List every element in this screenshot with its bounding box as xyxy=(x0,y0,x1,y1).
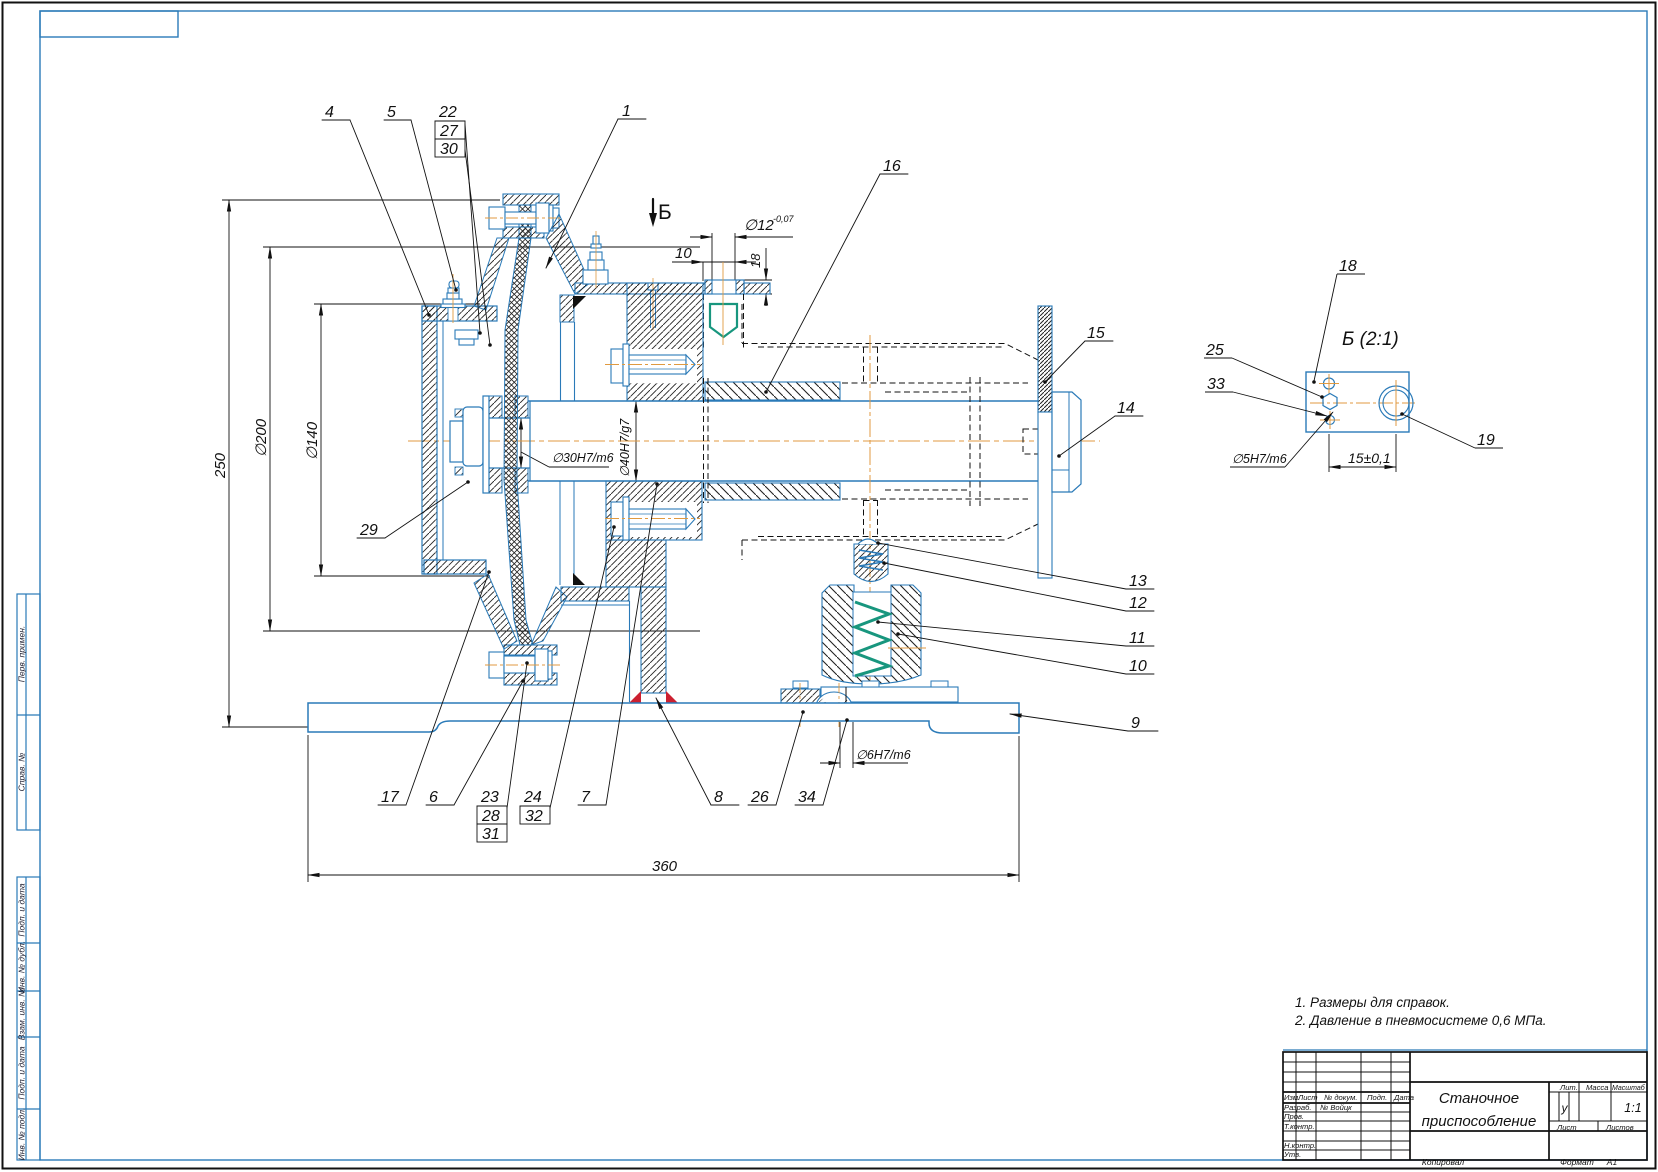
callouts 24/32 stack xyxy=(520,527,614,824)
svg-text:10: 10 xyxy=(1129,658,1147,675)
hub ring 29 hatched collars xyxy=(489,396,502,418)
svg-text:Масштаб: Масштаб xyxy=(1612,1084,1646,1092)
svg-text:приспособление: приспособление xyxy=(1422,1113,1537,1130)
svg-text:18: 18 xyxy=(1339,258,1357,275)
callout 17 xyxy=(378,572,489,805)
callout 13 xyxy=(878,543,1154,589)
svg-text:∅5H7/m6: ∅5H7/m6 xyxy=(1232,452,1287,466)
callout 18 xyxy=(1314,274,1365,381)
upper chamber top plate xyxy=(575,283,706,294)
hub upper block (hatched) xyxy=(627,283,703,401)
membrane disc 22/27/30 (cross-hatched band) xyxy=(504,205,533,645)
svg-text:28: 28 xyxy=(481,808,500,825)
shaft ф40 xyxy=(528,401,1038,481)
svg-text:Масса: Масса xyxy=(1586,1083,1608,1092)
svg-text:2. Давление в пневмосистеме 0,: 2. Давление в пневмосистеме 0,6 МПа. xyxy=(1294,1013,1547,1028)
svg-text:15: 15 xyxy=(1087,325,1105,342)
svg-text:11: 11 xyxy=(1129,630,1146,647)
main axis centerline xyxy=(408,440,1100,442)
bushing 16 upper xyxy=(705,382,840,400)
svg-text:10: 10 xyxy=(675,245,692,262)
pin 34 xyxy=(845,687,847,721)
weld triangle upper xyxy=(573,296,586,309)
svg-text:5: 5 xyxy=(387,104,396,121)
hex socket hole 25 xyxy=(1323,394,1337,410)
dimension ф12 -0.07 xyxy=(690,233,793,281)
technical notes xyxy=(1294,995,1547,1028)
column weld seams (red) xyxy=(629,691,641,703)
callout 26 xyxy=(748,712,803,805)
svg-text:13: 13 xyxy=(1129,573,1147,590)
callout 11 xyxy=(878,622,1154,646)
spherical washer dome xyxy=(816,692,852,721)
svg-text:Подп. и дата: Подп. и дата xyxy=(17,1046,27,1099)
svg-text:Копировал: Копировал xyxy=(1422,1157,1464,1167)
svg-text:22: 22 xyxy=(438,104,457,121)
left margin stamp lower: Подп. и дата / Инв № дубл / Взам. инв. № / Подп. и дата / Инв № подл xyxy=(17,877,40,1160)
svg-text:Инв. № дубл.: Инв. № дубл. xyxy=(17,941,27,993)
svg-text:360: 360 xyxy=(652,858,678,875)
svg-text:Подп.: Подп. xyxy=(1367,1093,1387,1102)
dimension 18 (port depth) xyxy=(744,248,772,306)
label ф5H7/m6 with leader xyxy=(1230,412,1333,467)
svg-text:Пров.: Пров. xyxy=(1284,1112,1304,1121)
svg-text:15±0,1: 15±0,1 xyxy=(1348,450,1391,466)
grease fitting 5 on cup xyxy=(441,281,465,321)
hidden passage below plug xyxy=(704,294,744,348)
svg-text:Б (2:1): Б (2:1) xyxy=(1342,329,1399,350)
clamp block 26 xyxy=(781,689,820,721)
valve body 10 xyxy=(822,585,921,684)
callout 25 xyxy=(1204,358,1322,397)
svg-text:7: 7 xyxy=(581,789,591,806)
grease fitting on cone top xyxy=(583,236,608,284)
svg-text:33: 33 xyxy=(1207,376,1225,393)
callout 8 xyxy=(656,698,739,805)
svg-text:Справ. №: Справ. № xyxy=(17,753,27,792)
svg-text:31: 31 xyxy=(482,826,500,843)
hub lower block (hatched) xyxy=(606,481,702,540)
hub lower bolt xyxy=(611,497,695,540)
valve piston 12 xyxy=(854,544,888,582)
svg-text:19: 19 xyxy=(1477,432,1495,449)
dimension ф200 xyxy=(263,247,700,631)
svg-text:№ докум.: № докум. xyxy=(1324,1093,1357,1102)
dimension ф30H7/m6 xyxy=(521,418,609,468)
dim 15±0,1 xyxy=(1329,434,1396,472)
svg-text:у: у xyxy=(1561,1101,1569,1115)
small spring 13 (blue) inside piston xyxy=(859,550,883,570)
hub lower bolt pocket xyxy=(628,502,697,537)
section arrow Б xyxy=(649,199,672,227)
callout 4 xyxy=(322,120,429,315)
svg-text:Разраб.: Разраб. xyxy=(1284,1103,1311,1112)
svg-text:∅40H7/g7: ∅40H7/g7 xyxy=(618,418,632,477)
svg-text:27: 27 xyxy=(439,123,459,140)
cup housing 4: bottom flange xyxy=(424,560,486,574)
svg-text:Лит.: Лит. xyxy=(1559,1083,1578,1092)
svg-text:Перв. примен.: Перв. примен. xyxy=(17,626,27,683)
screw in top plate xyxy=(648,283,658,290)
svg-text:∅140: ∅140 xyxy=(304,421,321,460)
support column 8 xyxy=(641,587,666,693)
bushing hidden continuation xyxy=(842,383,1028,499)
svg-text:Б: Б xyxy=(658,201,672,224)
svg-text:-0,07: -0,07 xyxy=(773,214,795,224)
cup housing 4: left wall xyxy=(422,306,437,574)
cone disc 1: upper-left band to cup xyxy=(474,238,509,310)
hub ring lip hatched slivers xyxy=(455,409,463,417)
svg-text:18: 18 xyxy=(748,253,763,268)
shaft neck ф30 xyxy=(489,401,530,481)
cone disc 1: lower-right band xyxy=(531,587,567,645)
dimension ф6H7/m6 xyxy=(820,722,908,768)
svg-text:∅30H7/m6: ∅30H7/m6 xyxy=(552,451,614,465)
callout 10 xyxy=(898,634,1154,674)
callout 5 xyxy=(384,120,456,290)
spring 11 (green) xyxy=(855,602,889,676)
svg-text:∅12: ∅12 xyxy=(744,217,774,234)
svg-text:Формат: Формат xyxy=(1560,1157,1594,1167)
port boss (ф12 hole) xyxy=(705,280,744,294)
dimension 360 xyxy=(308,735,1019,882)
base plate 9 xyxy=(308,703,1019,733)
valve vertical axis xyxy=(869,335,871,700)
svg-text:24: 24 xyxy=(523,789,542,806)
top-left stamp box xyxy=(40,11,178,37)
clamp nut 14 xyxy=(1052,392,1081,492)
callout 34 xyxy=(795,720,847,805)
end plate 15 xyxy=(1038,306,1052,412)
svg-text:4: 4 xyxy=(325,104,334,121)
svg-text:34: 34 xyxy=(798,789,816,806)
svg-text:16: 16 xyxy=(883,158,901,175)
callout 15 xyxy=(1045,341,1113,382)
svg-text:Лист: Лист xyxy=(1297,1093,1318,1102)
hub bore hidden edges xyxy=(704,378,709,503)
callout 19 xyxy=(1402,414,1503,448)
central bolt head xyxy=(450,396,489,493)
svg-text:№ Войцк: № Войцк xyxy=(1320,1103,1352,1112)
svg-text:12: 12 xyxy=(1129,595,1147,612)
dimension 250 xyxy=(222,200,500,727)
svg-text:Т.контр.: Т.контр. xyxy=(1284,1122,1315,1131)
svg-text:Взам. инв. №: Взам. инв. № xyxy=(17,988,27,1041)
callouts 22/27/30 stack xyxy=(435,121,490,345)
svg-text:Подп. и дата: Подп. и дата xyxy=(17,883,27,936)
pneumatic chamber hidden outline xyxy=(742,304,1038,560)
svg-text:23: 23 xyxy=(480,789,499,806)
callout 16 xyxy=(766,174,908,392)
svg-text:Листов: Листов xyxy=(1605,1123,1634,1132)
cup inner wall line xyxy=(442,321,444,560)
callout 29 xyxy=(357,482,468,538)
callout 12 xyxy=(884,563,1154,611)
svg-text:Дата: Дата xyxy=(1393,1093,1414,1102)
svg-text:Утв.: Утв. xyxy=(1283,1150,1301,1159)
dimension ф140 xyxy=(314,304,490,576)
callout 6 xyxy=(426,681,523,805)
detail centerline horizontal xyxy=(1310,402,1415,404)
cone disc 1: lower-left band xyxy=(474,574,517,649)
left margin stamp: Перв. примен. / Справ. № xyxy=(17,594,40,830)
svg-text:9: 9 xyxy=(1131,715,1140,732)
svg-text:Станочное: Станочное xyxy=(1439,1090,1519,1107)
svg-text:А1: А1 xyxy=(1606,1157,1618,1167)
cup housing 4: top flange xyxy=(422,306,497,321)
svg-text:250: 250 xyxy=(212,452,229,479)
top joint bolt xyxy=(489,203,559,233)
callout 9 xyxy=(1010,714,1158,731)
dimension 10 xyxy=(672,262,756,281)
plug (green) below port xyxy=(710,304,737,337)
title block main table (black) xyxy=(1283,1052,1647,1160)
pin hole 33 (ф5H7) xyxy=(1326,416,1335,425)
valve flange xyxy=(821,687,958,702)
hole 18 (small top hole) xyxy=(1324,378,1335,389)
valve stem hidden xyxy=(864,500,878,502)
bottom joint bolt xyxy=(489,649,552,681)
callout 1 xyxy=(546,119,646,268)
nut below cup flange (membrane stud) xyxy=(455,330,478,345)
callout 7 xyxy=(578,484,657,805)
svg-text:8: 8 xyxy=(714,789,723,806)
hole 19 (big threaded hole) xyxy=(1379,386,1413,420)
svg-text:Лист: Лист xyxy=(1556,1123,1577,1132)
dimension ф40H7/g7 xyxy=(635,401,637,481)
callout 33 xyxy=(1205,392,1327,416)
hub upper bolt pocket xyxy=(628,349,697,383)
bushing 16 lower xyxy=(705,483,840,500)
lower chamber bottom plate xyxy=(561,587,629,601)
svg-text:32: 32 xyxy=(525,808,543,825)
svg-text:∅200: ∅200 xyxy=(253,418,270,457)
svg-text:17: 17 xyxy=(381,789,400,806)
svg-text:29: 29 xyxy=(359,522,378,539)
svg-text:30: 30 xyxy=(440,141,458,158)
callout 14 xyxy=(1059,416,1143,456)
svg-text:25: 25 xyxy=(1205,342,1224,359)
title block top blue line xyxy=(1283,1049,1647,1051)
top clamp joint of membrane xyxy=(503,194,559,205)
bottom clamp joint of membrane xyxy=(504,645,557,655)
svg-text:Инв. № подл.: Инв. № подл. xyxy=(17,1108,27,1161)
svg-text:Н.контр.: Н.контр. xyxy=(1284,1141,1316,1150)
chamber side wall lines (cone in view) xyxy=(560,295,574,322)
weld triangle lower xyxy=(573,573,585,585)
detail block body xyxy=(1306,372,1409,432)
svg-text:14: 14 xyxy=(1117,400,1135,417)
svg-text:1. Размеры для справок.: 1. Размеры для справок. xyxy=(1295,995,1450,1010)
svg-text:1:1: 1:1 xyxy=(1624,1101,1641,1115)
svg-text:6: 6 xyxy=(429,789,438,806)
svg-text:26: 26 xyxy=(750,789,769,806)
cone disc 1: upper-right band to hub plate xyxy=(546,214,590,294)
hub upper bolt xyxy=(611,344,695,386)
svg-text:∅6H7/m6: ∅6H7/m6 xyxy=(856,748,911,762)
callouts 23/28/31 stack xyxy=(477,663,527,842)
svg-text:1: 1 xyxy=(622,103,631,120)
